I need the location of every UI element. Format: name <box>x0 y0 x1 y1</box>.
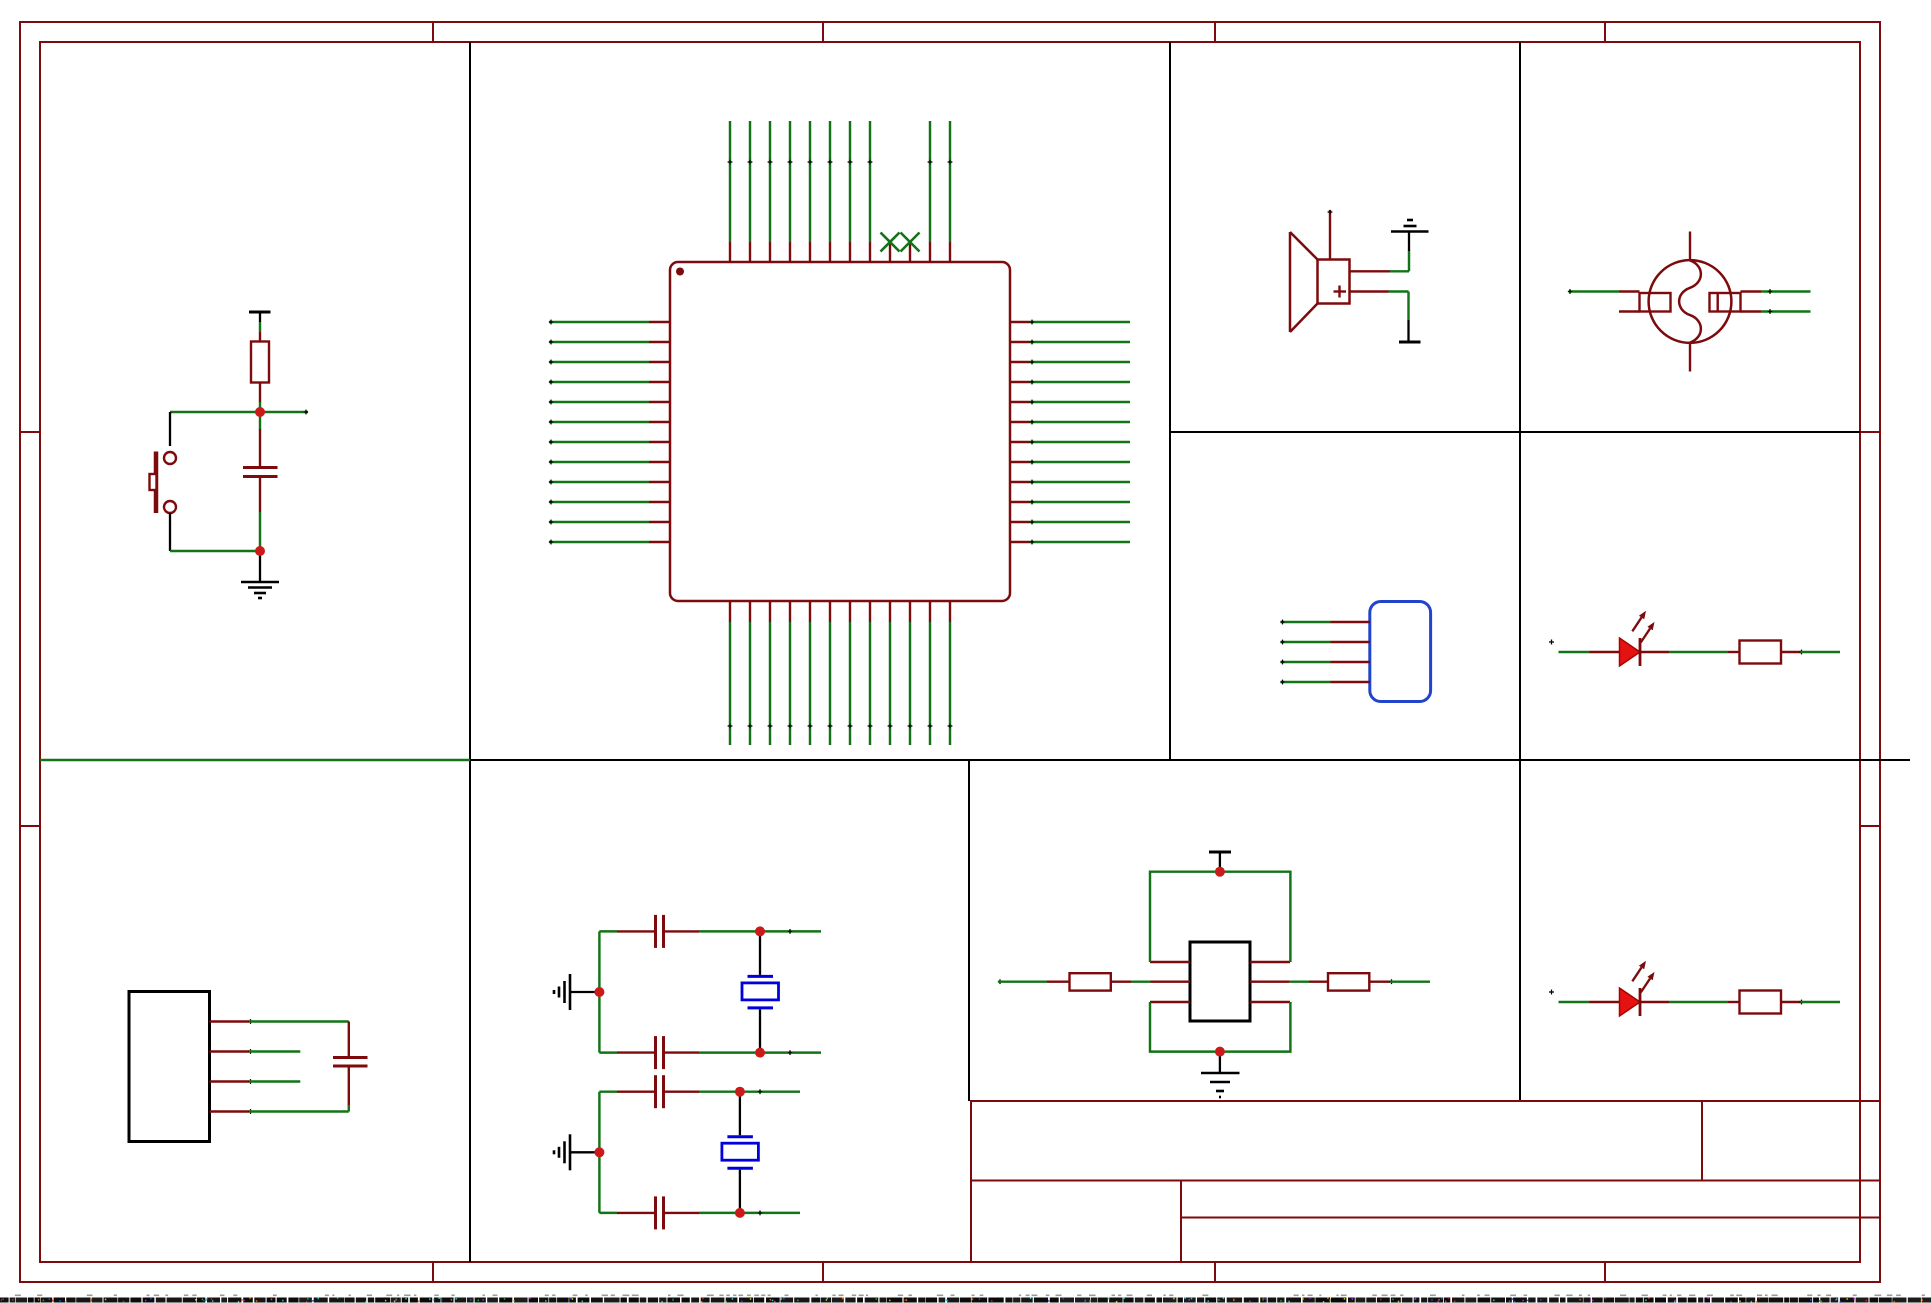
capacitor C5 <box>617 1075 699 1108</box>
node junction <box>735 1208 745 1218</box>
wire <box>699 930 760 932</box>
wire <box>598 931 600 1052</box>
U1 top pins <box>730 242 950 262</box>
M1 top pin <box>1689 232 1691 261</box>
J1 pin 1 <box>1331 621 1370 623</box>
wire <box>760 1050 821 1055</box>
wire (net along section divider) <box>40 759 470 761</box>
resistor R2 <box>1728 641 1801 664</box>
wire <box>699 1090 740 1092</box>
wire <box>740 1211 800 1216</box>
J2 pin 4 <box>210 1110 250 1112</box>
node junction <box>755 926 765 936</box>
M1 bottom pin <box>1689 343 1691 372</box>
wire <box>699 1212 740 1214</box>
ground <box>1201 1052 1240 1097</box>
crystal Y2 <box>722 1092 759 1213</box>
power VCC <box>1209 852 1231 872</box>
wire <box>170 410 308 415</box>
node junction <box>755 1048 765 1058</box>
M1 right pins <box>1741 292 1762 312</box>
inverted ground <box>1391 220 1429 251</box>
ground <box>554 1134 599 1170</box>
J1 pin 4 <box>1331 681 1370 683</box>
wire <box>1799 1000 1840 1005</box>
wire <box>998 979 1047 984</box>
LED D2 <box>1590 961 1670 1016</box>
capacitor C6 <box>617 1196 699 1229</box>
wire <box>1280 620 1330 625</box>
wire <box>248 1049 300 1054</box>
no-connect marks <box>881 233 920 252</box>
resistor R4 <box>1309 973 1390 990</box>
crystal Y1 <box>742 931 779 1052</box>
wire <box>248 1079 300 1084</box>
wire (top loop) <box>1150 872 1290 962</box>
wire <box>599 1051 617 1053</box>
microcontroller U1 (QFP) <box>670 262 1010 601</box>
J1 pin 2 <box>1331 641 1370 643</box>
resistor R3 <box>1047 973 1131 990</box>
node junction <box>1215 867 1225 877</box>
wire <box>1131 980 1151 982</box>
node junction <box>255 546 265 556</box>
wire <box>1280 680 1330 685</box>
title block <box>970 1101 1880 1262</box>
resistor R1 <box>251 332 269 402</box>
wire <box>248 1019 348 1024</box>
pushbutton S1 <box>150 412 177 551</box>
J2 pin 3 <box>210 1080 250 1082</box>
wire <box>1280 640 1330 645</box>
LS1 pin 1 <box>1328 210 1333 260</box>
wire <box>1761 309 1811 314</box>
capacitor C4 <box>617 1036 699 1069</box>
LED D1 <box>1590 611 1670 666</box>
ground bar <box>1399 320 1421 342</box>
J2 pin 2 <box>210 1050 250 1052</box>
wire <box>1549 990 1590 1003</box>
wire <box>1289 980 1309 982</box>
wire <box>1280 660 1330 665</box>
U1 left pins <box>649 322 670 542</box>
module U2 <box>1190 942 1250 1021</box>
connector J1 <box>1370 602 1431 702</box>
U1 right pins <box>1010 322 1030 542</box>
wire <box>259 402 261 412</box>
power VCC <box>249 312 271 322</box>
LS1 pin 2 wire <box>1350 251 1410 271</box>
wire <box>259 322 261 332</box>
speaker LS1 <box>1290 232 1350 332</box>
ground <box>241 551 279 598</box>
capacitor C2 <box>333 1022 368 1112</box>
node junction <box>735 1087 745 1097</box>
U1 left pin wires <box>549 320 649 545</box>
resistor R5 <box>1728 991 1801 1014</box>
J2 pin 1 <box>210 1020 250 1022</box>
U1 top pin wires <box>728 121 953 242</box>
capacitor C1 <box>243 412 278 551</box>
LS1 pin 3 wire <box>1350 292 1409 321</box>
J1 pin 3 <box>1331 661 1370 663</box>
node junction <box>255 407 265 417</box>
wire <box>1549 640 1590 653</box>
wire <box>1568 289 1619 294</box>
M1 left pins <box>1619 292 1640 312</box>
wire <box>1761 289 1811 294</box>
capacitor C3 <box>617 915 699 948</box>
node junction <box>594 1147 604 1157</box>
wire <box>760 929 821 934</box>
U1 bottom pins <box>730 601 950 622</box>
wire <box>1669 1001 1728 1003</box>
wire <box>599 930 617 932</box>
U2 pins <box>1150 962 1290 1002</box>
wire <box>1389 979 1430 984</box>
node junction <box>1215 1047 1225 1057</box>
U1 right pin wires <box>1030 320 1130 545</box>
wire <box>699 1051 760 1053</box>
footer text strip <box>0 1295 1931 1303</box>
node junction <box>594 987 604 997</box>
wire <box>599 1090 617 1092</box>
wire (bottom loop) <box>1150 1002 1290 1052</box>
wire <box>1799 650 1840 655</box>
wire <box>740 1089 800 1094</box>
ground <box>554 974 599 1010</box>
U1 bottom pin wires <box>728 622 953 745</box>
wire <box>248 1109 348 1114</box>
wire <box>170 550 260 552</box>
module J2 <box>129 992 210 1142</box>
wire <box>599 1212 617 1214</box>
motor M1 <box>1640 260 1741 343</box>
wire <box>1669 651 1728 653</box>
wire <box>598 1092 600 1213</box>
